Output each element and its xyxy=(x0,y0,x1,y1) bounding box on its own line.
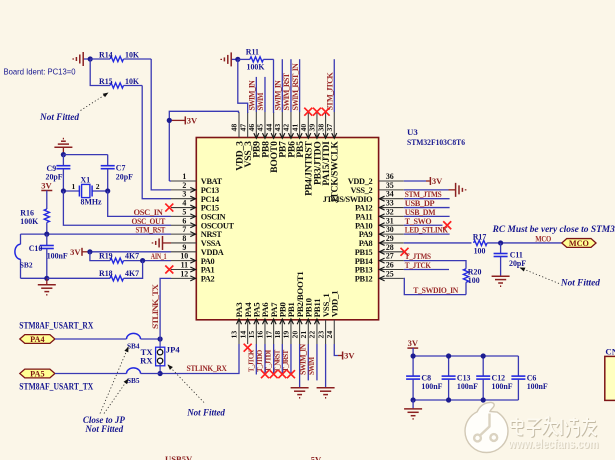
svg-text:1: 1 xyxy=(182,172,186,181)
resistor R15 10K xyxy=(90,59,142,88)
node decoupling bottom xyxy=(446,397,451,402)
wire net STM_JTMS (pin 34) xyxy=(404,198,450,200)
port MCO xyxy=(562,239,596,248)
svg-text:43: 43 xyxy=(273,124,282,132)
svg-text:44: 44 xyxy=(264,124,273,132)
svg-text:PA9: PA9 xyxy=(359,230,373,239)
wire net T_SWDIO_IN (pin 25) xyxy=(404,278,466,294)
node X1 pin1 xyxy=(61,188,66,193)
svg-text:17: 17 xyxy=(264,331,273,339)
watermark logo elecfans xyxy=(465,402,508,452)
pin 47 VSS_3 (top) xyxy=(238,112,254,168)
svg-text:C6: C6 xyxy=(527,373,537,382)
pin 8 VSSA (left) xyxy=(171,234,221,248)
svg-text:T_JTCK: T_JTCK xyxy=(405,260,432,270)
wire R15 to PC14 pin 3 xyxy=(142,86,171,199)
no-connect X pin 38 xyxy=(322,108,330,116)
svg-text:SWIM: SWIM xyxy=(307,356,316,375)
svg-text:PB14: PB14 xyxy=(355,257,373,266)
wire STLINK_TX vertical (PA2 pin 12) xyxy=(160,278,171,339)
pin 13 PA3 (bottom) xyxy=(230,302,245,344)
jumper JP4 xyxy=(140,339,180,374)
arrow to C11 xyxy=(520,268,560,284)
pin 11 PA1 (left) xyxy=(171,261,215,275)
svg-text:30: 30 xyxy=(386,225,394,234)
arrow to SB4 xyxy=(100,347,129,414)
svg-text:CN3: CN3 xyxy=(605,346,615,356)
svg-text:3V: 3V xyxy=(41,181,52,191)
wire net SWIM_IN (pin 43) xyxy=(281,59,283,112)
connector CN3 (cut off) xyxy=(605,346,615,400)
pin 15 PA5 (bottom) xyxy=(247,302,261,344)
svg-text:26: 26 xyxy=(386,261,394,270)
pin 33 PA12 (right) xyxy=(355,199,404,213)
svg-text:37: 37 xyxy=(325,124,334,132)
pin 30 PA9 (right) xyxy=(359,225,404,239)
svg-text:20pF: 20pF xyxy=(116,172,133,181)
pin 4 PC15 (left) xyxy=(171,199,219,213)
pin 24 VDD_1 (bottom) xyxy=(325,291,340,344)
svg-text:PA10: PA10 xyxy=(355,221,373,230)
wire decoupling top rail xyxy=(413,355,518,357)
wire net USB_DP (pin 33) xyxy=(404,207,450,209)
svg-text:SWIM_IN: SWIM_IN xyxy=(274,80,283,110)
svg-text:T_JRST: T_JRST xyxy=(281,350,290,372)
svg-text:STM8AF_USART_RX: STM8AF_USART_RX xyxy=(19,321,93,331)
svg-text:4: 4 xyxy=(182,199,186,208)
svg-text:100nF: 100nF xyxy=(47,252,68,261)
no-connect X T_SWO xyxy=(443,221,451,229)
node X1 pin2 xyxy=(105,188,110,193)
arrow to JP4 xyxy=(168,365,204,403)
svg-text:MCO: MCO xyxy=(569,239,589,248)
watermark text www.elecfans.com xyxy=(508,437,600,452)
node STLINK_RX xyxy=(158,371,163,376)
port PA5 xyxy=(20,369,55,378)
node decoupling bottom xyxy=(411,397,416,402)
svg-text:31: 31 xyxy=(386,216,394,225)
wire net USB_DM (pin 32) xyxy=(404,215,450,217)
svg-text:R15: R15 xyxy=(99,77,113,86)
pin 42 PB6 (top) xyxy=(282,112,298,158)
svg-text:VDDA: VDDA xyxy=(201,248,224,257)
pin 40 PB4/JNTRST (top) xyxy=(299,112,315,196)
wire net SWIM_RST_IN (pin 41) xyxy=(299,59,301,112)
svg-text:OSCIN: OSCIN xyxy=(201,213,226,222)
svg-text:SWIM_IN: SWIM_IN xyxy=(298,344,307,375)
power 3V (R16 top) xyxy=(41,181,52,191)
svg-text:STM32F103C8T6: STM32F103C8T6 xyxy=(407,137,466,147)
svg-text:PA4: PA4 xyxy=(30,335,44,344)
pin 38 PA15/JTDI (top) xyxy=(316,112,332,186)
svg-text:R11: R11 xyxy=(246,48,259,57)
pin 48 VDD_3 (top) xyxy=(230,112,246,171)
capacitor C6 100nF xyxy=(511,356,548,400)
node R16/C10/NRST xyxy=(44,232,49,237)
pin 20 PB2/BOOT1 (bottom) xyxy=(290,272,305,344)
wire decoupling bottom rail xyxy=(413,399,518,401)
svg-text:PA8: PA8 xyxy=(359,239,373,248)
pin 21 PB10 (bottom) xyxy=(299,297,314,344)
wire R11 to VSS_3 pin 47 xyxy=(238,59,248,113)
svg-text:100: 100 xyxy=(468,276,480,285)
svg-text:STM_JTCK: STM_JTCK xyxy=(325,71,334,110)
pin 36 VDD_2 (right) xyxy=(348,172,404,186)
node 3V VBAT xyxy=(167,118,172,123)
svg-text:OSCOUT: OSCOUT xyxy=(201,221,235,230)
pin 5 OSCIN (left) xyxy=(171,207,226,221)
node decoupling top xyxy=(481,353,486,358)
wire VDD_1 pin 24 to 3V xyxy=(334,344,338,356)
svg-text:100K: 100K xyxy=(247,62,266,71)
pin 9 VDDA (left) xyxy=(171,243,224,257)
ground GND (pin 20) xyxy=(291,388,309,398)
svg-text:21: 21 xyxy=(299,331,308,339)
svg-text:C11: C11 xyxy=(510,250,523,259)
svg-text:SWIM_RST: SWIM_RST xyxy=(282,72,291,110)
power 3V (VDD_2) xyxy=(430,176,443,186)
svg-text:25: 25 xyxy=(386,269,394,278)
wire X1 to OSC_OUT pin 6 xyxy=(63,191,171,225)
pin 16 PA6 (bottom) xyxy=(256,302,271,344)
wire STM_RST rail to NRST pin 7 xyxy=(21,233,172,235)
ground GND (R11, sideways) xyxy=(221,52,238,66)
node AIN_1 xyxy=(140,258,145,263)
resistor R11 100K xyxy=(238,48,274,72)
svg-text:48: 48 xyxy=(230,124,239,132)
svg-text:40: 40 xyxy=(299,124,308,132)
capacitor C12 100nF xyxy=(476,356,513,400)
svg-text:PC15: PC15 xyxy=(201,204,219,213)
wire net STM_JTCK (pin 37) xyxy=(333,59,335,112)
wire net T_JTCK (pin 15) xyxy=(255,344,257,375)
svg-text:VSSA: VSSA xyxy=(201,239,221,248)
no-connect X PA4 pin 14 xyxy=(244,344,252,352)
svg-text:10K: 10K xyxy=(125,77,140,86)
no-connect X PB15 pin 28 xyxy=(401,248,409,256)
node R17/C11 xyxy=(498,240,503,245)
svg-text:PB12: PB12 xyxy=(355,274,373,283)
svg-text:19: 19 xyxy=(282,331,291,339)
wire net LED_STLINK (pin 30) xyxy=(404,233,450,235)
svg-text:T_JTCK: T_JTCK xyxy=(246,350,255,372)
svg-text:5: 5 xyxy=(182,207,186,216)
power 3V (decoupling rail) xyxy=(407,338,418,356)
svg-text:10: 10 xyxy=(180,252,188,261)
wire top rail C9-C7 xyxy=(63,154,107,156)
svg-text:100K: 100K xyxy=(20,217,39,226)
svg-text:15: 15 xyxy=(247,331,256,339)
wire net SWIM (pin 22) xyxy=(316,344,318,380)
svg-text:SWIM: SWIM xyxy=(256,92,265,110)
svg-text:3V: 3V xyxy=(432,176,443,186)
svg-text:PA5: PA5 xyxy=(30,369,44,378)
svg-text:JP4: JP4 xyxy=(166,345,181,355)
wire R11 to BOOT0 pin 44 xyxy=(273,59,275,113)
svg-text:VDD_2: VDD_2 xyxy=(348,177,373,186)
svg-text:T_NRST: T_NRST xyxy=(272,350,281,372)
svg-text:PC14: PC14 xyxy=(201,195,219,204)
pin 7 NRST (left) xyxy=(171,225,222,239)
power 3V (VDD_1) xyxy=(343,351,356,361)
svg-text:T_JTDO: T_JTDO xyxy=(255,350,264,372)
svg-text:38: 38 xyxy=(316,124,325,132)
power 3V (VDDA) xyxy=(70,247,90,257)
svg-text:16: 16 xyxy=(256,331,265,339)
svg-text:RX: RX xyxy=(140,356,153,366)
ground GND (VSSA pin 8) xyxy=(153,236,172,250)
pin 10 PA0 (left) xyxy=(171,252,215,266)
svg-text:USB5V: USB5V xyxy=(165,454,193,460)
svg-text:100nF: 100nF xyxy=(527,382,548,391)
pin 29 PA8 (right) xyxy=(359,234,404,248)
no-connect X T_JTDI xyxy=(270,370,278,378)
svg-text:13: 13 xyxy=(230,331,239,339)
svg-text:4K7: 4K7 xyxy=(125,269,139,278)
svg-text:7: 7 xyxy=(182,225,186,234)
svg-text:100nF: 100nF xyxy=(457,382,478,391)
svg-text:20pF: 20pF xyxy=(509,259,526,268)
svg-text:STM_RST: STM_RST xyxy=(136,225,166,235)
capacitor C11 20pF xyxy=(494,243,527,276)
power 3V (VBAT/VDD_3) xyxy=(169,116,198,126)
solder bridge SB2 xyxy=(15,234,47,278)
capacitor C8 100nF xyxy=(406,356,443,400)
wire X1 to OSC_IN pin 5 xyxy=(108,191,171,216)
svg-text:PC13: PC13 xyxy=(201,186,219,195)
wire net SWIM (pin 45) xyxy=(264,77,266,112)
svg-text:SB4: SB4 xyxy=(127,341,140,350)
svg-text:X1: X1 xyxy=(81,176,91,185)
no-connect X pin 39 xyxy=(313,108,321,116)
pin 27 PB14 (right) xyxy=(355,252,404,266)
resistor R18 4K7 xyxy=(47,261,143,281)
resistor R17 100 xyxy=(473,232,487,255)
pin 34 JTMS/SWDIO (right) xyxy=(323,190,404,204)
pin 28 PB15 (right) xyxy=(355,243,404,257)
svg-text:STLINK_RX: STLINK_RX xyxy=(187,363,228,373)
svg-text:12: 12 xyxy=(180,269,188,278)
svg-text:100nF: 100nF xyxy=(492,382,513,391)
pin 18 PB0 (bottom) xyxy=(273,302,288,344)
svg-text:22: 22 xyxy=(308,331,317,339)
svg-text:45: 45 xyxy=(256,124,265,132)
wire VSS_1 pin 23 to ground xyxy=(325,344,327,387)
node decoupling top xyxy=(446,353,451,358)
svg-text:VDD_1: VDD_1 xyxy=(329,291,339,318)
node decoupling top xyxy=(411,353,416,358)
pin 14 PA4 (bottom) xyxy=(238,302,253,344)
wire VDD_2 pin 36 to 3V xyxy=(404,180,426,182)
wire 3V to VDDA pin 9 xyxy=(90,251,171,253)
pin 12 PA2 (left) xyxy=(171,269,215,283)
wire net SWIM_IN (pin 21) xyxy=(307,344,309,380)
wire R14 to PC13 pin 2 xyxy=(151,59,171,190)
pin 17 PA7 (bottom) xyxy=(264,302,279,344)
no-connect X PA1 pin 11 xyxy=(165,266,173,274)
node 3V/R19 xyxy=(87,249,92,254)
svg-text:STLINK_TX: STLINK_TX xyxy=(151,284,160,329)
svg-text:C13: C13 xyxy=(457,373,471,382)
svg-text:R19: R19 xyxy=(99,252,113,261)
svg-text:Not Fitted: Not Fitted xyxy=(186,408,225,418)
resistor R14 10K xyxy=(90,50,151,61)
capacitor C13 100nF xyxy=(442,356,479,400)
wire net T_JTCK (pin 26) xyxy=(404,269,449,271)
svg-text:20: 20 xyxy=(290,331,299,339)
no-connect X pin 40 xyxy=(304,108,312,116)
svg-text:SWIM_RST_IN: SWIM_RST_IN xyxy=(291,63,300,111)
svg-text:34: 34 xyxy=(386,190,394,199)
svg-text:Not Fitted: Not Fitted xyxy=(560,278,600,288)
svg-text:PA2: PA2 xyxy=(201,274,215,283)
svg-text:47: 47 xyxy=(238,124,247,132)
pin 45 PB8 (top) xyxy=(256,112,272,158)
svg-text:C10: C10 xyxy=(29,244,43,253)
svg-text:T_SWDIO_IN: T_SWDIO_IN xyxy=(413,285,459,295)
node crystal top rail xyxy=(61,152,66,157)
ground GND (pin 23) xyxy=(317,388,335,398)
wire net SWIM_RST (pin 42) xyxy=(290,59,292,112)
ground GND (top-left, sideways) xyxy=(73,52,90,66)
svg-text:46: 46 xyxy=(247,124,256,132)
resistor R19 4K7 xyxy=(90,252,143,264)
svg-text:35: 35 xyxy=(386,181,394,190)
svg-text:C12: C12 xyxy=(492,373,506,382)
svg-text:JTCK/SWCLK: JTCK/SWCLK xyxy=(330,141,341,204)
pin 3 PC14 (left) xyxy=(171,190,219,204)
svg-text:R17: R17 xyxy=(473,232,487,241)
svg-text:VBAT: VBAT xyxy=(201,177,223,186)
crystal X1 8MHz xyxy=(63,176,107,207)
wire PA9 pin 30 MCO net xyxy=(404,242,472,244)
svg-text:AIN_1: AIN_1 xyxy=(151,251,167,261)
svg-text:32: 32 xyxy=(386,207,394,216)
svg-text:24: 24 xyxy=(325,331,334,339)
no-connect X T_NRST xyxy=(278,370,286,378)
wire net SWIM_IN (pin 46) xyxy=(255,77,257,112)
wire SB4 to JP4 xyxy=(141,338,161,340)
svg-text:RC Must be very close to STM32: RC Must be very close to STM32 xyxy=(492,225,615,235)
pin 22 PB11 (bottom) xyxy=(308,299,323,344)
svg-text:Board Ident: PC13=0: Board Ident: PC13=0 xyxy=(4,68,76,77)
node PC13 pull junction xyxy=(88,56,93,61)
svg-text:LED_STLINK: LED_STLINK xyxy=(405,225,449,235)
pin 46 PB9 (top) xyxy=(247,112,263,158)
svg-text:4K7: 4K7 xyxy=(125,252,139,261)
capacitor C10 100nF xyxy=(29,234,68,278)
svg-text:www.elecfans.com: www.elecfans.com xyxy=(508,437,599,451)
svg-text:PA12: PA12 xyxy=(355,204,373,213)
svg-text:STM8AF_USART_TX: STM8AF_USART_TX xyxy=(19,382,93,392)
wire AIN_1 to PA0 pin 10 xyxy=(143,260,171,262)
pin 37 JTCK/SWCLK (top) xyxy=(325,112,341,203)
svg-text:2: 2 xyxy=(96,182,100,191)
svg-text:9: 9 xyxy=(182,243,186,252)
svg-text:8: 8 xyxy=(182,234,186,243)
svg-text:SWIM_IN: SWIM_IN xyxy=(248,80,257,110)
pin 6 OSCOUT (left) xyxy=(171,216,235,230)
ground GND (below C10) xyxy=(38,278,56,295)
svg-text:11: 11 xyxy=(181,261,189,270)
svg-text:29: 29 xyxy=(386,234,394,243)
solder bridge SB4 xyxy=(127,333,141,350)
svg-text:C7: C7 xyxy=(116,164,126,173)
svg-text:3: 3 xyxy=(182,190,186,199)
svg-text:Not Fitted: Not Fitted xyxy=(84,424,123,434)
svg-text:36: 36 xyxy=(386,172,394,181)
pin 44 BOOT0 (top) xyxy=(264,112,280,173)
svg-text:SB5: SB5 xyxy=(127,376,140,385)
svg-text:Not Fitted: Not Fitted xyxy=(39,113,79,123)
node C10 bottom xyxy=(44,276,49,281)
wire PA4 to SB4 xyxy=(55,338,127,340)
wire R17 to MCO port xyxy=(487,242,562,244)
text Close to JP Not Fitted xyxy=(83,415,126,434)
svg-text:1: 1 xyxy=(72,182,76,191)
arrow to R15 xyxy=(81,93,109,111)
svg-text:28: 28 xyxy=(386,243,394,252)
svg-text:33: 33 xyxy=(386,199,394,208)
wire net T_NRST (pin 18) xyxy=(281,344,283,374)
svg-text:100: 100 xyxy=(474,247,486,256)
svg-text:42: 42 xyxy=(282,124,291,132)
svg-text:R18: R18 xyxy=(99,269,113,278)
wire net T_JTDO (pin 16) xyxy=(264,344,266,374)
wire PA3 pin 13 to STLINK_RX xyxy=(160,344,239,374)
wire PB2 pin 20 to ground xyxy=(299,344,301,387)
wire net T_JRST (pin 19) xyxy=(290,344,292,374)
pin 35 VSS_2 (right) xyxy=(351,181,404,195)
svg-text:41: 41 xyxy=(290,124,299,132)
svg-text:PA0: PA0 xyxy=(201,257,215,266)
svg-text:8MHz: 8MHz xyxy=(81,198,103,207)
wire net T_JTMS (pin 27) to R20 xyxy=(404,261,466,269)
capacitor C9 20pF xyxy=(46,155,71,191)
pin 2 PC13 (left) xyxy=(171,181,219,195)
node R11 left xyxy=(235,57,240,62)
svg-text:27: 27 xyxy=(386,252,394,261)
pin 1 VBAT (left) xyxy=(171,172,223,186)
svg-text:PB15: PB15 xyxy=(355,248,373,257)
no-connect X T_JRST xyxy=(287,370,295,378)
pin 19 PB1 (bottom) xyxy=(282,302,297,344)
pin 23 VSS_1 (bottom) xyxy=(316,294,331,344)
no-connect X PC15 pin 4 xyxy=(165,204,173,212)
svg-text:C8: C8 xyxy=(421,373,431,382)
svg-text:100nF: 100nF xyxy=(421,382,442,391)
svg-text:3V: 3V xyxy=(344,351,355,361)
pin 43 PB7 (top) xyxy=(273,112,289,158)
svg-text:18: 18 xyxy=(273,331,282,339)
svg-text:5V: 5V xyxy=(311,455,322,460)
svg-text:SB2: SB2 xyxy=(20,260,33,269)
watermark text dianzifashaoyou (vector glyphs) xyxy=(511,417,597,438)
svg-text:PA11: PA11 xyxy=(355,213,372,222)
svg-text:3V: 3V xyxy=(70,247,81,257)
pin 41 PB5 (top) xyxy=(290,112,306,158)
svg-text:NRST: NRST xyxy=(201,230,223,239)
pin 25 PB12 (right) xyxy=(355,269,404,283)
wire SB5 to JP4 xyxy=(141,373,161,375)
svg-text:U3: U3 xyxy=(407,127,418,137)
ground GND (VSS_2 pin 35) xyxy=(404,183,466,197)
ground GND (decoupling) xyxy=(404,400,422,419)
svg-text:6: 6 xyxy=(182,216,186,225)
wire net T_JTDI (pin 17) xyxy=(273,344,275,374)
wire net T_SWO (pin 31) xyxy=(404,224,443,226)
no-connect X T_JTDO xyxy=(261,370,269,378)
